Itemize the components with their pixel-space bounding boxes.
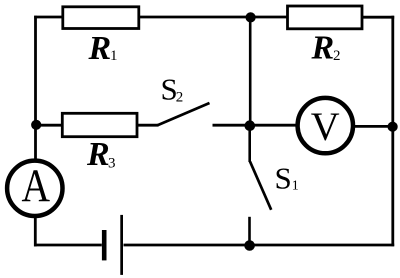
wire: right vertical rail xyxy=(391,16,394,247)
wire: S2 gap to middle node and on to voltmeter xyxy=(213,124,298,127)
battery positive plate (long thin) xyxy=(120,215,123,275)
node: middle junction (S2 / S1 / voltmeter) xyxy=(245,120,256,131)
wire: voltmeter to right rail xyxy=(353,125,393,128)
wire: R3 to switch S2 pivot xyxy=(136,124,159,127)
wire: switch S1 lower lead xyxy=(248,217,251,247)
svg-text:V: V xyxy=(311,104,340,149)
resistor R3 xyxy=(62,113,137,136)
wire: bottom rail right segment xyxy=(124,244,395,247)
node: top junction xyxy=(246,12,256,22)
node: right junction (voltmeter branch to right rail) xyxy=(388,122,398,132)
resistor R1 xyxy=(63,7,139,29)
svg-text:3: 3 xyxy=(108,156,116,172)
svg-text:S: S xyxy=(275,161,292,196)
svg-text:1: 1 xyxy=(110,48,118,64)
wire: bottom rail left segment xyxy=(34,244,102,247)
voltmeter U1 xyxy=(298,98,353,153)
svg-text:2: 2 xyxy=(176,89,184,105)
node: bottom junction (S1 branch to bottom rail) xyxy=(244,240,255,251)
svg-text:R: R xyxy=(86,136,110,173)
svg-text:R: R xyxy=(311,30,335,67)
resistor R2 xyxy=(288,6,363,29)
svg-text:2: 2 xyxy=(333,48,341,64)
svg-text:1: 1 xyxy=(292,179,299,194)
wire: top rail left segment xyxy=(34,16,64,19)
svg-text:A: A xyxy=(21,160,50,212)
node: left junction (rail to R3 branch) xyxy=(31,120,41,130)
wire: left node to R3 xyxy=(36,124,64,127)
switch S1 blade (open, hanging down-right from middle node lead) xyxy=(250,162,271,210)
wire: top rail right segment xyxy=(362,16,394,19)
switch S1 upper lead xyxy=(248,125,251,162)
wire: top rail middle segment xyxy=(139,16,289,19)
wire: vertical from top node to middle node xyxy=(249,17,252,126)
wire: left vertical rail (top node to ammeter top) xyxy=(34,16,37,161)
switch S2 blade (open, rising to the right) xyxy=(158,103,210,125)
svg-text:R: R xyxy=(88,30,112,67)
battery negative plate (short thick) xyxy=(102,230,107,260)
wire: ammeter bottom lead xyxy=(34,216,37,246)
ammeter A1 xyxy=(7,161,62,216)
